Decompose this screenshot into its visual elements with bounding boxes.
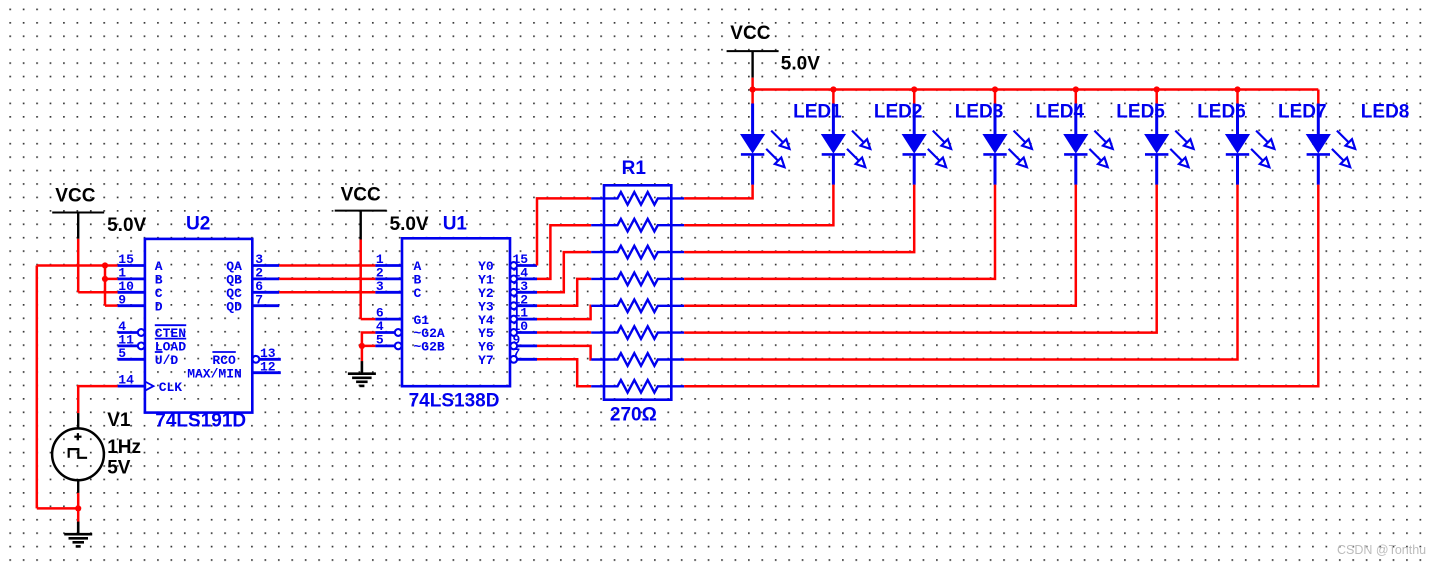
wire bus drop LED5 [1075, 90, 1078, 105]
wire LED5 to R1.5 [684, 185, 1076, 306]
resistor R1 element 6 [591, 326, 684, 339]
U2 pin 2 (QB) [252, 277, 279, 280]
svg-text:~G2B: ~G2B [414, 340, 445, 355]
wire Y1 to R1.2 [537, 225, 591, 279]
U1 pin 11 (Y4) [510, 316, 517, 323]
svg-text:74LS138D: 74LS138D [409, 391, 500, 412]
node junction bus LED4 [992, 86, 998, 92]
U2 pin 12 (MAX/MIN) [252, 371, 280, 374]
resistor R1 element 8 [591, 380, 684, 393]
node junction on pin A row [102, 262, 108, 268]
svg-text:QD: QD [226, 299, 242, 314]
U2 pin 13 (RCO) [253, 356, 260, 363]
svg-text:5: 5 [118, 346, 126, 361]
svg-text:VCC: VCC [341, 184, 381, 205]
wire G2B to ground [361, 346, 364, 361]
U2 pin 5 (U/D) [118, 358, 145, 361]
U1 pin 1 (A) [375, 264, 402, 267]
wire to U2 pin B [105, 278, 118, 281]
wire Y3 to R1.4 [537, 279, 591, 306]
LED LED1 [740, 104, 790, 185]
node junction bus LED2 [830, 86, 836, 92]
svg-text:U2: U2 [186, 213, 210, 234]
U2 pin 4 (CTEN) [118, 331, 138, 334]
wire Y0 to R1.1 [537, 198, 591, 265]
resistor R1 element 1 [591, 192, 684, 205]
node junction bus LED3 [911, 86, 917, 92]
U1 pin 6 (G1) [375, 318, 402, 321]
LED LED6 [1144, 104, 1194, 185]
wire V1 plus to U2 CLK [78, 386, 117, 413]
svg-text:14: 14 [118, 373, 134, 388]
svg-text:LED8: LED8 [1361, 101, 1410, 122]
U2 pin 9 (D) [118, 304, 145, 307]
node junction bus LED1 [750, 86, 756, 92]
resistor pack R1 body [604, 185, 671, 399]
U2 pin 3 (QA) [252, 264, 279, 267]
LED LED3 [902, 104, 952, 185]
wire bus drop LED3 [913, 90, 916, 105]
svg-text:5: 5 [376, 333, 384, 348]
svg-text:R1: R1 [622, 158, 647, 179]
svg-text:U/D: U/D [155, 353, 179, 368]
node junction bus LED6 [1154, 86, 1160, 92]
U1 pin 10 (Y5) [510, 329, 517, 336]
svg-text:V1: V1 [107, 410, 131, 431]
ground (V1) [77, 522, 80, 535]
U1 pin 3 (C) [375, 291, 402, 294]
U1 pin 2 (B) [375, 277, 402, 280]
node junction bus LED7 [1234, 86, 1240, 92]
wire bus drop LED2 [832, 90, 835, 105]
source V1 square-wave clock [77, 413, 79, 428]
U1 pin 13 (Y2) [510, 289, 517, 296]
svg-text:5.0V: 5.0V [390, 214, 429, 235]
wire LED3 to R1.3 [684, 185, 914, 253]
node junction bus LED5 [1073, 86, 1079, 92]
resistor R1 element 3 [591, 246, 684, 259]
wire to U2 pin D [105, 304, 118, 307]
svg-text:Y7: Y7 [478, 353, 494, 368]
wire bus drop LED6 [1155, 90, 1158, 105]
wire LED6 to R1.6 [684, 185, 1157, 333]
wire VCC to U1 G1 [361, 318, 376, 321]
LED LED8 [1306, 104, 1356, 185]
U2 pin 6 (QC) [252, 291, 279, 294]
U1 pin 15 (Y0) [510, 262, 517, 269]
wire long feedback left vertical [36, 266, 39, 509]
wire U2 QB to U1 [279, 278, 375, 281]
LED LED2 [821, 104, 871, 185]
U2 pin 10 (C) [118, 291, 145, 294]
wire feedback bottom horizontal [37, 507, 78, 510]
LED LED5 [1063, 104, 1113, 185]
U1 pin 9 (Y6) [510, 343, 517, 350]
U1 pin 12 (Y3) [510, 302, 517, 309]
wire to U2 pin A [37, 264, 118, 267]
wire Y2 to R1.3 [537, 252, 591, 292]
wire bus drop LED1 [751, 90, 754, 105]
IC U2 74LS191D body [145, 239, 252, 413]
resistor R1 element 7 [591, 353, 684, 366]
svg-text:VCC: VCC [55, 186, 95, 207]
U2 pin 7 (QD) [252, 304, 279, 307]
svg-text:9: 9 [118, 292, 126, 307]
wire Y7 to R1.8 [537, 359, 591, 386]
svg-text:CLK: CLK [159, 380, 183, 395]
svg-text:5.0V: 5.0V [107, 215, 146, 236]
svg-text:VCC: VCC [730, 23, 770, 44]
LED LED7 [1225, 104, 1275, 185]
svg-text:MAX/MIN: MAX/MIN [187, 366, 242, 381]
wire Y4 to R1.5 [537, 306, 591, 319]
resistor R1 element 2 [591, 219, 684, 232]
wire Y5 to R1.6 [537, 331, 591, 334]
node junction on pin B row [102, 276, 108, 282]
wire VCC to U2 pin C [78, 291, 117, 294]
U1 pin 14 (Y1) [510, 276, 517, 283]
wire LED2 to R1.2 [684, 185, 833, 226]
wire bus drop LED8 [1317, 90, 1320, 105]
U1 pin 5 (~G2B) [375, 344, 394, 347]
svg-text:D: D [155, 299, 163, 314]
svg-text:12: 12 [260, 359, 276, 374]
wire LED1 to R1.1 [684, 185, 753, 199]
ground (U1 enables) [361, 361, 364, 374]
wire bus drop LED7 [1236, 90, 1239, 105]
svg-text:3: 3 [376, 279, 384, 294]
wire V1 minus down [77, 493, 80, 524]
svg-text:U1: U1 [443, 214, 468, 235]
svg-text:270Ω: 270Ω [610, 405, 657, 426]
svg-text:7: 7 [513, 346, 521, 361]
resistor R1 element 4 [591, 273, 684, 286]
wire VCC bus over LEDs [753, 88, 1319, 91]
node junction G2B row [359, 343, 365, 349]
svg-text:7: 7 [255, 292, 263, 307]
svg-text:5V: 5V [107, 458, 131, 479]
U2 pin 1 (B) [118, 277, 145, 280]
wire U2 QA to U1 [279, 264, 375, 267]
node junction V1 minus [75, 505, 81, 511]
U1 pin 4 (~G2A) [375, 331, 394, 334]
svg-text:C: C [414, 286, 422, 301]
LED LED4 [982, 104, 1032, 185]
svg-text:CSDN @Tonthu: CSDN @Tonthu [1337, 543, 1426, 557]
wire bus drop LED4 [994, 90, 997, 105]
wire junction vertical A-D [104, 266, 107, 306]
U2 pin 14 (CLK) [118, 385, 145, 388]
svg-text:1Hz: 1Hz [107, 437, 141, 458]
resistor R1 element 5 [591, 300, 684, 313]
U1 pin 7 (Y7) [510, 356, 517, 363]
U2 pin 15 (A) [118, 264, 145, 267]
wire LED7 to R1.7 [684, 185, 1237, 360]
U2 pin 11 (LOAD) [118, 344, 138, 347]
wire LED8 to R1.8 [684, 185, 1318, 387]
IC U1 74LS138D body [402, 238, 510, 386]
wire U1 G2A loop [362, 333, 376, 346]
wire U2 QC to U1 [279, 291, 375, 294]
svg-text:5.0V: 5.0V [781, 53, 820, 74]
svg-text:74LS191D: 74LS191D [155, 411, 246, 432]
wire Y6 to R1.7 [537, 346, 591, 360]
wire LED4 to R1.4 [684, 185, 995, 279]
